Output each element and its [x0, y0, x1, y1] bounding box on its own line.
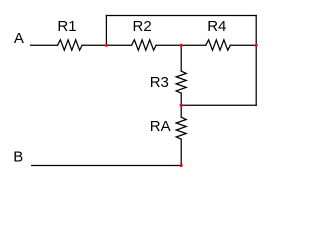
wire J1 up to top rail — [105, 16, 107, 46]
wire B — [32, 165, 182, 167]
svg-text:R4: R4 — [207, 18, 226, 35]
wire right rail — [255, 16, 257, 106]
resistor R2 — [132, 40, 157, 50]
node J4 junction dot — [180, 104, 183, 107]
wire A to R1 — [31, 44, 58, 46]
node J2 junction dot — [180, 44, 183, 47]
svg-text:B: B — [13, 149, 23, 166]
wire J2 down to R3 — [180, 45, 182, 71]
wire R1 to node J1 — [82, 44, 106, 46]
resistor R3 — [176, 71, 186, 93]
resistor RA — [176, 117, 186, 139]
svg-text:RA: RA — [150, 118, 171, 135]
node J3 junction dot — [255, 44, 258, 47]
wire J2 to R4 — [181, 44, 206, 46]
wire J4 to RA — [180, 105, 182, 117]
wire RA to node J5 — [180, 139, 182, 165]
svg-text:R2: R2 — [133, 18, 152, 35]
svg-text:A: A — [14, 30, 24, 47]
wire J4 to right rail — [181, 104, 256, 106]
resistor R1 — [58, 40, 83, 50]
node J1 junction dot — [105, 44, 108, 47]
node J5 junction dot — [180, 164, 183, 167]
svg-text:R3: R3 — [150, 74, 169, 91]
resistor R4 — [206, 40, 231, 50]
wire R4 to node J3 — [230, 44, 256, 46]
wire R3 to node J4 — [180, 93, 182, 105]
wire top rail — [106, 15, 256, 17]
wire J1 to R2 — [106, 44, 131, 46]
wire R2 to node J2 — [156, 44, 181, 46]
svg-text:R1: R1 — [57, 18, 76, 35]
